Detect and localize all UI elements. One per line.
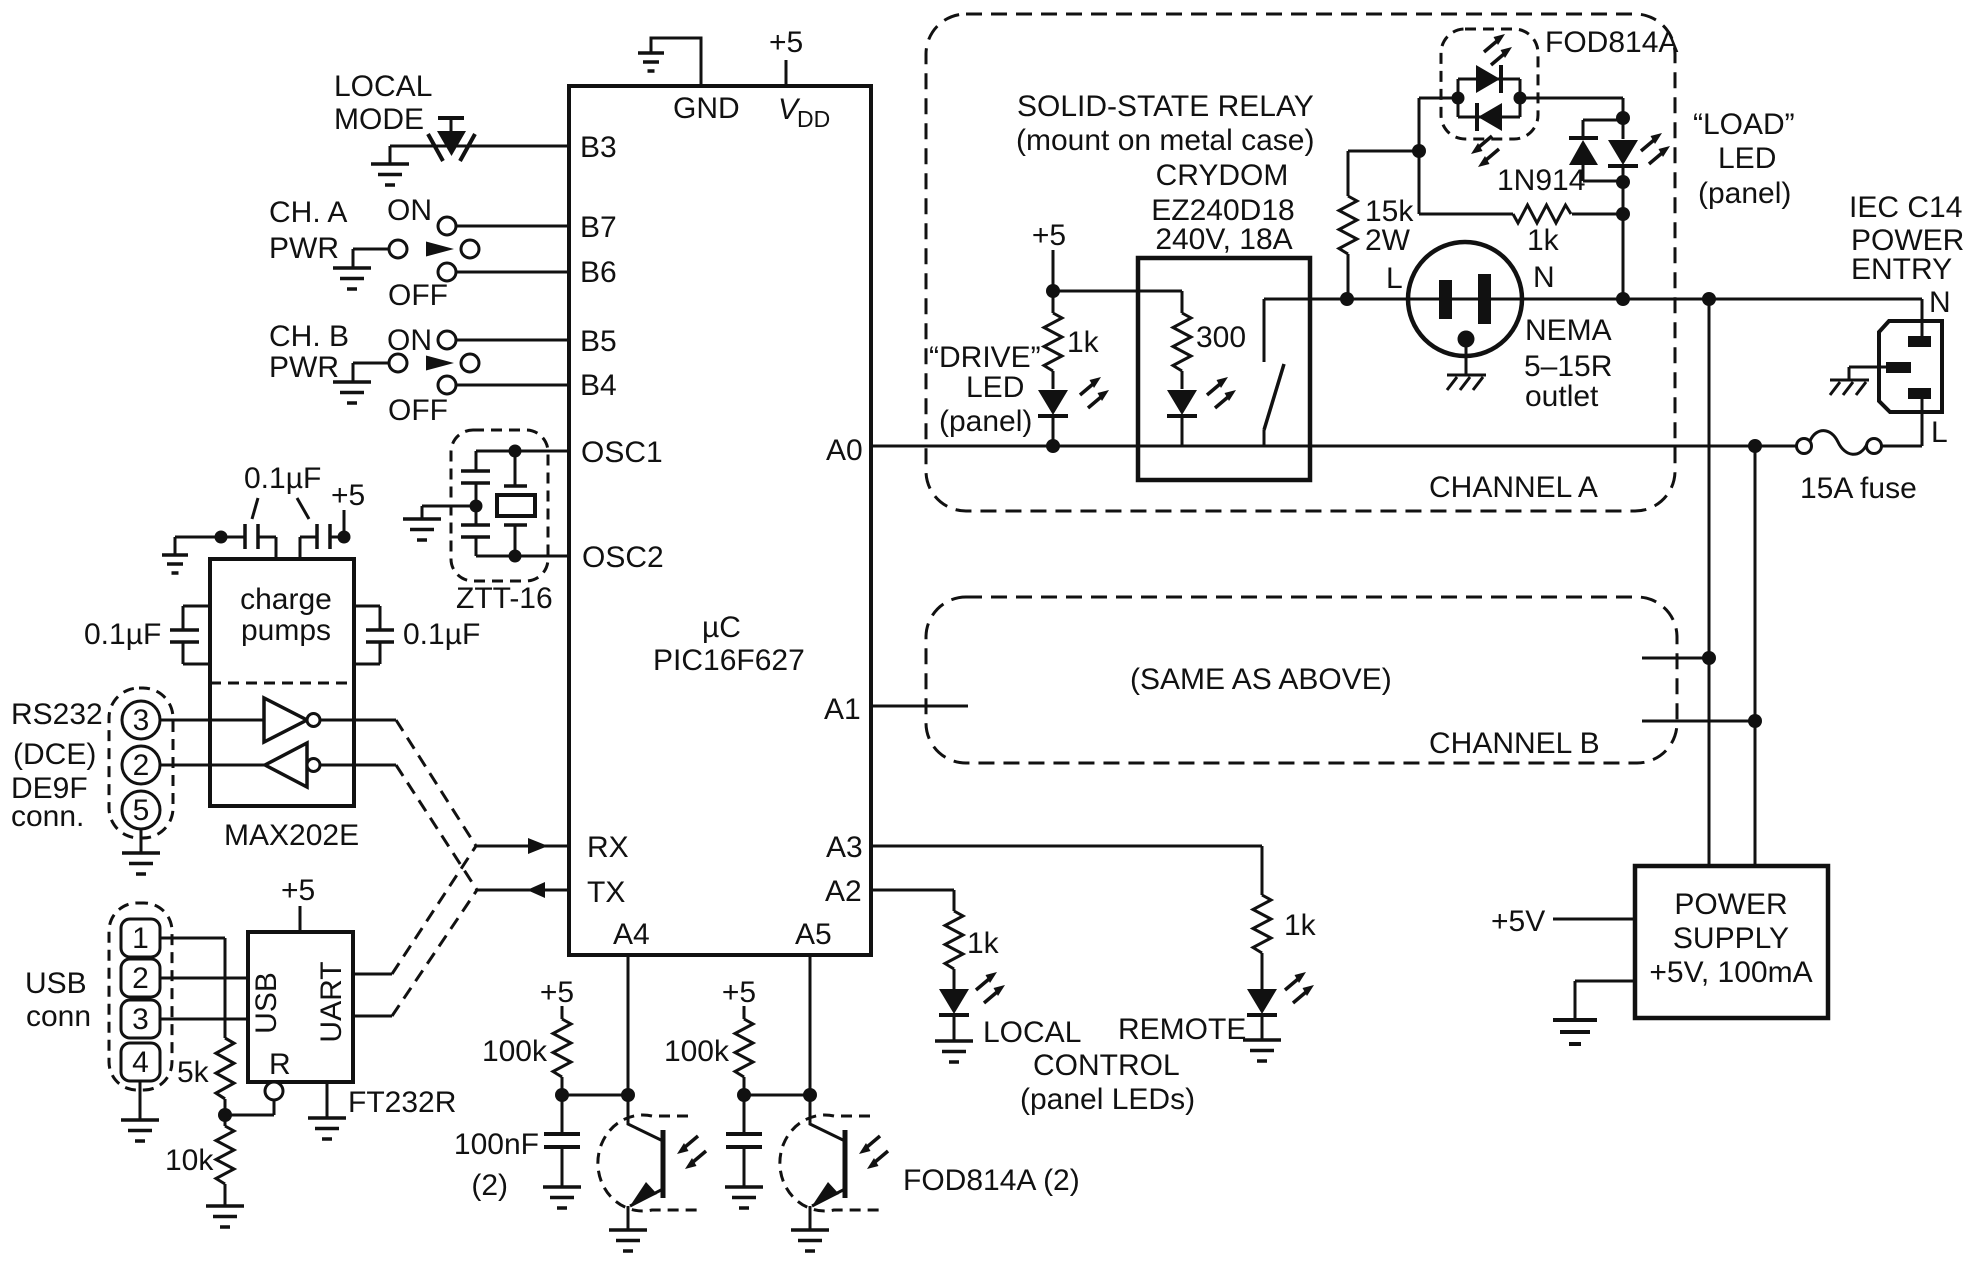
svg-text:1k: 1k	[1527, 224, 1560, 257]
svg-text:+5: +5	[722, 976, 756, 1009]
svg-text:OFF: OFF	[388, 394, 448, 427]
svg-text:“DRIVE”: “DRIVE”	[929, 341, 1041, 374]
svg-text:CH. A: CH. A	[269, 196, 347, 229]
svg-text:LOCAL: LOCAL	[983, 1016, 1081, 1049]
svg-text:10k: 10k	[165, 1144, 214, 1177]
svg-text:“LOAD”: “LOAD”	[1693, 108, 1795, 141]
svg-text:ENTRY: ENTRY	[1851, 253, 1952, 286]
svg-text:IEC C14: IEC C14	[1849, 191, 1962, 224]
svg-text:conn: conn	[26, 1000, 91, 1033]
svg-text:B3: B3	[580, 131, 617, 164]
svg-text:R: R	[269, 1048, 291, 1081]
svg-text:100k: 100k	[482, 1035, 548, 1068]
svg-text:+5: +5	[540, 976, 574, 1009]
svg-text:NEMA: NEMA	[1525, 314, 1612, 347]
svg-text:(panel): (panel)	[939, 405, 1032, 438]
svg-text:ZTT-16: ZTT-16	[456, 582, 553, 615]
svg-text:100nF: 100nF	[454, 1128, 539, 1161]
svg-text:2: 2	[133, 749, 150, 782]
svg-text:1k: 1k	[1067, 326, 1100, 359]
svg-text:CONTROL: CONTROL	[1033, 1049, 1180, 1082]
svg-text:µC: µC	[702, 611, 741, 644]
svg-text:(SAME AS ABOVE): (SAME AS ABOVE)	[1130, 663, 1392, 696]
svg-text:3: 3	[132, 1003, 149, 1036]
svg-text:3: 3	[133, 704, 150, 737]
svg-text:UART: UART	[315, 961, 348, 1042]
svg-text:A1: A1	[824, 693, 861, 726]
svg-text:PIC16F627: PIC16F627	[653, 644, 805, 677]
svg-text:MAX202E: MAX202E	[224, 819, 359, 852]
svg-text:+5: +5	[769, 26, 803, 59]
svg-text:FOD814A (2): FOD814A (2)	[903, 1164, 1080, 1197]
svg-text:GND: GND	[673, 92, 740, 125]
svg-text:300: 300	[1196, 321, 1246, 354]
svg-text:(panel): (panel)	[1698, 177, 1791, 210]
svg-text:(2): (2)	[471, 1169, 508, 1202]
svg-text:4: 4	[132, 1046, 149, 1079]
svg-text:RS232: RS232	[11, 698, 103, 731]
svg-text:(panel LEDs): (panel LEDs)	[1020, 1083, 1195, 1116]
svg-text:5k: 5k	[177, 1056, 210, 1089]
svg-text:PWR: PWR	[269, 351, 339, 384]
svg-text:CHANNEL B: CHANNEL B	[1429, 727, 1600, 760]
svg-text:OFF: OFF	[388, 279, 448, 312]
svg-text:charge: charge	[240, 583, 332, 616]
svg-text:2: 2	[132, 962, 149, 995]
svg-text:5: 5	[133, 794, 150, 827]
svg-text:OSC1: OSC1	[581, 436, 663, 469]
svg-text:REMOTE: REMOTE	[1118, 1013, 1246, 1046]
svg-text:conn.: conn.	[11, 800, 84, 833]
svg-text:SOLID-STATE RELAY: SOLID-STATE RELAY	[1017, 90, 1314, 123]
svg-text:LED: LED	[966, 371, 1024, 404]
svg-text:1: 1	[132, 922, 149, 955]
svg-text:+5V, 100mA: +5V, 100mA	[1649, 956, 1812, 989]
svg-text:N: N	[1533, 261, 1555, 294]
svg-text:1k: 1k	[1284, 909, 1317, 942]
svg-text:15A fuse: 15A fuse	[1800, 472, 1917, 505]
svg-text:FOD814A: FOD814A	[1545, 26, 1678, 59]
svg-text:PWR: PWR	[269, 232, 339, 265]
svg-text:0.1µF: 0.1µF	[84, 618, 161, 651]
svg-text:B7: B7	[580, 211, 617, 244]
svg-text:B6: B6	[580, 256, 617, 289]
svg-text:5–15R: 5–15R	[1524, 350, 1612, 383]
svg-text:+5: +5	[331, 479, 365, 512]
svg-text:+5: +5	[1032, 219, 1066, 252]
svg-text:1k: 1k	[967, 927, 1000, 960]
svg-text:0.1µF: 0.1µF	[403, 618, 480, 651]
svg-text:FT232R: FT232R	[348, 1086, 456, 1119]
svg-text:+5V: +5V	[1491, 905, 1545, 938]
svg-text:RX: RX	[587, 831, 629, 864]
svg-text:0.1µF: 0.1µF	[244, 462, 321, 495]
svg-text:(DCE): (DCE)	[13, 738, 96, 771]
svg-text:POWER: POWER	[1674, 888, 1787, 921]
svg-text:1N914: 1N914	[1497, 164, 1585, 197]
svg-text:B5: B5	[580, 325, 617, 358]
svg-text:100k: 100k	[664, 1035, 730, 1068]
svg-text:ON: ON	[387, 194, 432, 227]
svg-text:LED: LED	[1718, 142, 1776, 175]
svg-text:2W: 2W	[1365, 224, 1411, 257]
svg-text:SUPPLY: SUPPLY	[1673, 922, 1789, 955]
svg-text:CH. B: CH. B	[269, 320, 349, 353]
svg-text:N: N	[1929, 286, 1951, 319]
svg-text:OSC2: OSC2	[582, 541, 664, 574]
svg-text:MODE: MODE	[334, 103, 424, 136]
svg-text:A2: A2	[825, 875, 862, 908]
svg-text:LOCAL: LOCAL	[334, 70, 432, 103]
svg-text:(mount on metal case): (mount on metal case)	[1016, 124, 1314, 157]
svg-text:TX: TX	[587, 876, 625, 909]
svg-text:USB: USB	[250, 972, 283, 1034]
svg-text:240V, 18A: 240V, 18A	[1155, 223, 1292, 256]
svg-text:CHANNEL A: CHANNEL A	[1429, 471, 1598, 504]
svg-text:CRYDOM: CRYDOM	[1156, 159, 1289, 192]
svg-text:L: L	[1931, 416, 1948, 449]
svg-text:L: L	[1386, 262, 1403, 295]
svg-text:DD: DD	[797, 106, 830, 132]
svg-text:USB: USB	[25, 967, 87, 1000]
svg-text:+5: +5	[281, 874, 315, 907]
svg-text:pumps: pumps	[241, 614, 331, 647]
svg-text:A0: A0	[826, 434, 863, 467]
svg-text:A5: A5	[795, 918, 832, 951]
svg-text:A4: A4	[613, 918, 650, 951]
svg-text:outlet: outlet	[1525, 380, 1599, 413]
svg-text:B4: B4	[580, 369, 617, 402]
svg-text:A3: A3	[826, 831, 863, 864]
svg-text:ON: ON	[387, 324, 432, 357]
